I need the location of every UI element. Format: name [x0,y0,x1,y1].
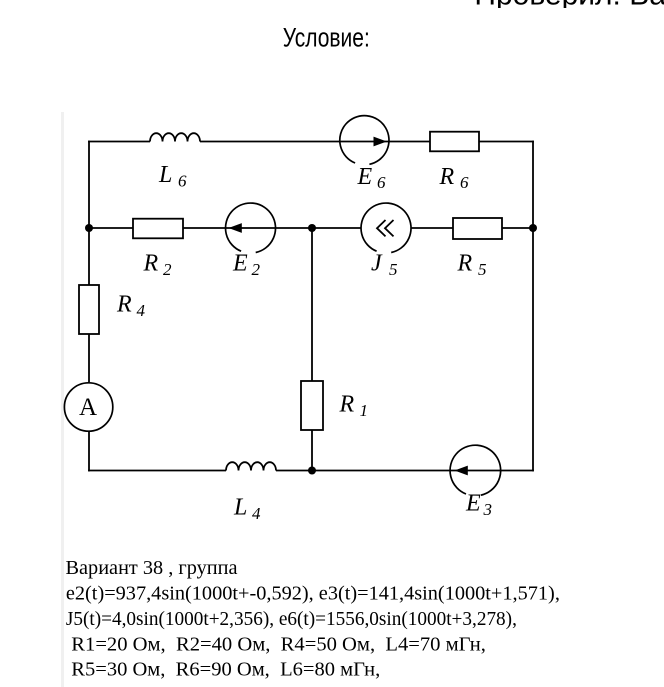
wire: middle row segment J5 to R5 [411,227,453,229]
svg-text:J5(t)=4,0sin(1000t+2,356), e6(: J5(t)=4,0sin(1000t+2,356), e6(t)=1556,0s… [66,608,517,630]
svg-text:3: 3 [483,500,493,519]
svg-text:Условие:: Условие: [283,22,370,52]
svg-text:R1=20 Ом, R2=40 Ом, R4=50 Ом: R1=20 Ом, R2=40 Ом, R4=50 Ом, L4=70 мГн, [71,633,486,655]
svg-text:6: 6 [460,173,469,192]
wire: bottom horizontal segment from L4 to right [276,470,534,472]
wire: middle row segment R2 to J5 [183,227,361,229]
svg-text:2: 2 [163,260,172,279]
svg-text:4: 4 [137,301,146,320]
resistor R4 [79,285,99,334]
wire: right vertical wire [532,141,534,472]
current source J5 [361,203,411,252]
resistor R2 [133,219,183,239]
label R6 [439,164,470,192]
problem statement text block [66,557,560,680]
label L4 [233,495,261,524]
wire: middle row left segment [89,227,133,229]
svg-text:5: 5 [389,260,398,279]
svg-text:1: 1 [360,401,369,420]
node: junction left-middle [85,224,93,232]
label E3 [465,491,492,520]
svg-text:E: E [357,164,373,190]
svg-text:A: A [79,394,97,421]
voltage source E6 [340,116,389,165]
header text (cut off at top): Проверил [474,0,664,12]
svg-text:6: 6 [377,173,386,192]
svg-text:R: R [457,251,473,277]
svg-text:R: R [339,392,355,418]
svg-text:Проверил: Васюков: Проверил: Васюков [474,0,664,12]
label R5 [457,251,487,280]
label E2 [232,251,261,280]
wire: middle vertical wire lower [311,430,313,471]
label R1 [339,392,369,421]
resistor R5 [453,218,502,239]
wire: top-right horizontal segment [479,141,534,143]
svg-text:R: R [439,164,455,190]
node: junction center-middle [308,224,316,232]
wire: bottom-left horizontal segment [88,470,226,472]
wire: left vertical wire bottom [88,431,90,471]
inductor L4 [226,462,276,470]
wire: left vertical wire top (node to middle row) [88,141,90,228]
label J5 [371,251,398,280]
svg-text:6: 6 [178,172,187,191]
label L6 [158,162,187,191]
svg-text:e2(t)=937,4sin(1000t+-0,592),: e2(t)=937,4sin(1000t+-0,592), e3(t)=141,… [66,583,560,605]
label R2 [143,251,173,280]
wire: top-left horizontal segment [88,141,150,143]
svg-text:Вариант 38 , группа: Вариант 38 , группа [66,557,238,579]
svg-text:E: E [232,251,248,277]
node: junction bottom-center [308,467,316,475]
inductor L6 [150,133,200,141]
svg-text:2: 2 [252,260,261,279]
svg-text:5: 5 [478,260,487,279]
svg-text:L: L [158,162,172,188]
wire: left vertical wire below R4 [88,334,90,382]
resistor R1 [301,381,323,430]
svg-text:R: R [116,292,132,318]
wire: middle vertical wire upper [311,228,313,381]
wire: middle row right segment [502,227,533,229]
svg-text:E: E [465,491,481,517]
label E6 [357,164,387,192]
voltage source E2 [226,203,276,252]
resistor R6 [430,132,479,152]
svg-text:L: L [233,495,247,521]
svg-text:R5=30 Ом, R6=90 Ом, L6=80 мГ: R5=30 Ом, R6=90 Ом, L6=80 мГн, [71,658,380,680]
ammeter A [64,383,112,431]
node: junction right-middle [529,224,537,232]
heading: Условие [283,22,370,52]
voltage source E3 [450,445,501,495]
faint table border line [61,112,64,687]
svg-text:R: R [143,251,159,277]
wire: top horizontal segment from L6 to R6 [200,141,430,143]
svg-text:J: J [371,251,383,277]
svg-text:4: 4 [252,504,261,523]
label R4 [116,292,146,321]
wire: left vertical wire middle [88,228,90,285]
